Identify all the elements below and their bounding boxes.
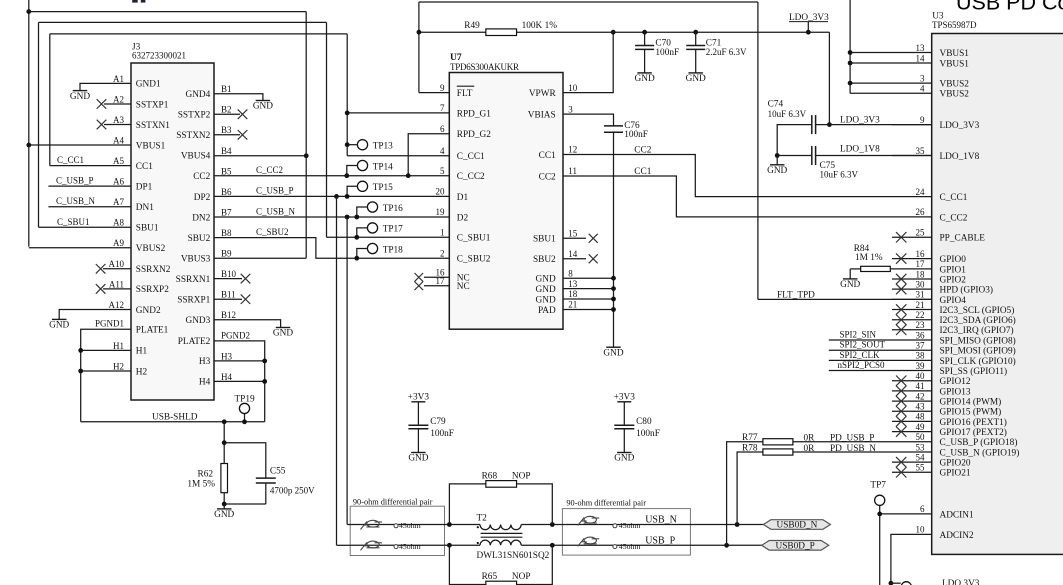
- svg-text:I2C3_SDA (GPIO6): I2C3_SDA (GPIO6): [940, 315, 1016, 326]
- pin 14 SBU2 stub: [563, 258, 586, 260]
- svg-text:A1: A1: [113, 74, 124, 84]
- svg-text:GND: GND: [686, 74, 706, 84]
- wire pin B6 DP2 to U7 D1: [214, 195, 449, 197]
- junction R62 branch: [222, 419, 227, 424]
- svg-text:DP1: DP1: [136, 182, 153, 192]
- svg-text:SSTXN2: SSTXN2: [176, 131, 210, 141]
- pin B10 SSRXN1 stub: [214, 278, 242, 280]
- pin B11 SSRXP1 stub: [214, 298, 242, 300]
- wire net C_USB_N vertical down: [346, 217, 348, 525]
- svg-text:+3V3: +3V3: [614, 392, 636, 402]
- svg-text:6: 6: [440, 124, 445, 134]
- svg-text:11: 11: [568, 166, 577, 176]
- wire VBUS right vertical to B4/B9: [305, 12, 307, 259]
- svg-text:GPIO0: GPIO0: [940, 255, 967, 265]
- svg-text:SPI2_CLK: SPI2_CLK: [840, 350, 881, 360]
- svg-text:nSPI2_PCS0: nSPI2_PCS0: [838, 360, 886, 370]
- svg-text:PP_CABLE: PP_CABLE: [940, 234, 986, 244]
- wire pin A4 VBUS1: [29, 144, 131, 146]
- svg-text:14: 14: [916, 53, 926, 63]
- svg-text:12: 12: [568, 145, 577, 155]
- no-connect X B2: [238, 109, 248, 119]
- no-connect X NC16: [415, 273, 424, 282]
- impedance symbol 45ohm upper left: [361, 520, 421, 530]
- svg-text:45ohm: 45ohm: [619, 542, 641, 551]
- svg-text:NOP: NOP: [512, 471, 531, 481]
- svg-text:15: 15: [568, 229, 578, 239]
- svg-text:3: 3: [920, 73, 925, 83]
- junction C55 top: [222, 440, 227, 445]
- wire LDO_3V3 rail: [419, 31, 830, 33]
- svg-text:GPIO20: GPIO20: [940, 459, 971, 469]
- svg-text:SSRXN2: SSRXN2: [136, 265, 171, 275]
- junction VBUS1 pin13: [848, 50, 853, 55]
- svg-text:+3V3: +3V3: [408, 392, 430, 402]
- svg-text:24: 24: [916, 187, 926, 197]
- svg-text:C_CC2: C_CC2: [940, 213, 968, 223]
- svg-text:SPI_MOSI (GPIO9): SPI_MOSI (GPIO9): [940, 346, 1016, 357]
- ground below U7: [603, 347, 623, 358]
- svg-text:TP17: TP17: [383, 225, 403, 235]
- svg-text:SBU2: SBU2: [188, 234, 211, 244]
- svg-text:C55: C55: [270, 466, 286, 476]
- pin B2 SSTXP2 stub: [214, 113, 240, 115]
- wire lower row T2 to flag: [521, 544, 762, 546]
- wire pin B1 GND4: [214, 94, 263, 101]
- svg-text:T2: T2: [477, 514, 488, 524]
- svg-text:A12: A12: [109, 300, 125, 310]
- ground at A12: [49, 319, 69, 330]
- U7 pin designators and names: [436, 83, 578, 316]
- pin A7 DN1 net stub C_USB_N: [48, 206, 131, 208]
- power flag LDO_3V3: [789, 13, 829, 35]
- svg-text:H1: H1: [136, 347, 148, 357]
- svg-text:C_SBU2: C_SBU2: [256, 227, 289, 237]
- svg-text:GND: GND: [536, 275, 556, 285]
- svg-text:VBUS3: VBUS3: [181, 254, 211, 264]
- wire pin B4 VBUS4: [214, 155, 306, 157]
- ground at A1: [70, 91, 90, 102]
- svg-text:FLT_TPD: FLT_TPD: [777, 290, 815, 300]
- svg-text:SPI_CLK (GPIO10): SPI_CLK (GPIO10): [940, 356, 1016, 367]
- transformer T2 core: [481, 533, 523, 537]
- svg-text:CC2: CC2: [193, 172, 210, 182]
- svg-text:GPIO14 (PWM): GPIO14 (PWM): [940, 397, 1002, 408]
- svg-text:PLATE1: PLATE1: [136, 326, 169, 336]
- svg-text:SSTXP2: SSTXP2: [178, 111, 211, 121]
- svg-text:H2: H2: [136, 367, 148, 377]
- no-connect X B10: [241, 274, 251, 284]
- transformer T2 lower winding: [477, 540, 550, 561]
- wire U3 pin10 ADCIN2: [891, 534, 932, 585]
- wire net CC2 from U7 CC1 to U3 C_CC1: [563, 155, 932, 197]
- svg-text:SPI2_SIN: SPI2_SIN: [840, 330, 877, 340]
- svg-text:41: 41: [916, 381, 925, 391]
- net label USB_N: [645, 515, 677, 526]
- svg-text:SBU1: SBU1: [136, 224, 159, 234]
- svg-text:B11: B11: [221, 290, 236, 300]
- svg-text:TP18: TP18: [383, 245, 403, 255]
- svg-text:C_CC1: C_CC1: [57, 155, 84, 165]
- test point TP7: [870, 481, 886, 585]
- svg-text:39: 39: [916, 361, 926, 371]
- svg-text:H3: H3: [199, 357, 211, 367]
- svg-text:17: 17: [916, 259, 926, 269]
- junction H3: [262, 359, 267, 364]
- svg-text:D1: D1: [457, 193, 469, 203]
- no-connect X SBU2: [589, 254, 598, 263]
- svg-text:8: 8: [568, 268, 573, 278]
- svg-text:4700p 250V: 4700p 250V: [270, 485, 315, 495]
- capacitor C74 10uF 6.3V: [768, 100, 817, 156]
- wire net C_SBU1 wrap (left vertical): [38, 22, 40, 227]
- svg-text:4: 4: [920, 84, 925, 94]
- test point TP16: [354, 202, 403, 220]
- junction RPD_G2 on C_CC2: [406, 173, 411, 178]
- svg-text:I2C3_IRQ (GPIO7): I2C3_IRQ (GPIO7): [940, 325, 1014, 336]
- svg-text:45ohm: 45ohm: [399, 521, 421, 530]
- wire net C_CC1 wrap (right vertical): [346, 34, 348, 156]
- svg-text:SSTXP1: SSTXP1: [136, 100, 169, 110]
- wire net FLT right vertical: [757, 2, 759, 299]
- svg-text:45ohm: 45ohm: [619, 521, 641, 530]
- net label LDO_1V8 at pin35: [840, 144, 880, 154]
- net label C_USB_N at B7: [256, 206, 296, 216]
- svg-text:TP19: TP19: [235, 395, 255, 405]
- svg-text:VBUS1: VBUS1: [136, 141, 166, 151]
- svg-text:GND1: GND1: [136, 80, 161, 90]
- svg-text:GPIO21: GPIO21: [940, 469, 971, 479]
- net label nSPI2_PCS0: [838, 360, 886, 370]
- svg-text:C_SBU2: C_SBU2: [457, 255, 491, 265]
- svg-text:VBUS1: VBUS1: [940, 59, 970, 69]
- test point TP19: [235, 395, 255, 425]
- svg-text:B1: B1: [221, 84, 232, 94]
- wire U7 pin4 C_CC1 segment: [347, 155, 449, 157]
- svg-text:FLT: FLT: [457, 89, 473, 99]
- wire C_USB_P into lower row: [337, 544, 351, 546]
- net label SPI2_SOUT: [840, 340, 886, 350]
- no-connect X A10: [96, 264, 106, 274]
- svg-text:B2: B2: [221, 105, 232, 115]
- IC U3 TPS65987D body: [932, 12, 1063, 555]
- svg-text:C_CC1: C_CC1: [940, 193, 968, 203]
- ground at B1: [253, 101, 273, 112]
- capacitor C76 100nF: [604, 121, 648, 140]
- junction TP7 on ADCIN1: [877, 512, 882, 517]
- junction GND8: [611, 276, 616, 281]
- svg-text:100K 1%: 100K 1%: [522, 21, 558, 31]
- svg-text:A4: A4: [113, 135, 124, 145]
- svg-text:GPIO12: GPIO12: [940, 377, 971, 387]
- svg-text:C80: C80: [636, 417, 652, 427]
- svg-text:PLATE2: PLATE2: [178, 337, 211, 347]
- svg-text:H3: H3: [221, 351, 232, 361]
- wire net C_SBU1 wrap (right vertical): [326, 22, 328, 237]
- svg-text:GND: GND: [635, 74, 655, 84]
- wire pin B8 SBU2 jog down: [214, 238, 449, 259]
- wire pin A8 SBU1 net C_SBU1: [39, 226, 132, 228]
- svg-text:21: 21: [916, 300, 925, 310]
- wire pin A9 VBUS2: [29, 247, 131, 249]
- impedance symbol 45ohm upper right: [578, 516, 641, 530]
- svg-text:GND: GND: [214, 510, 234, 520]
- pin A11 SSRXP2 stub: [103, 288, 131, 290]
- wire LDO_3V3 down to U3: [828, 32, 830, 124]
- wire net CC1 from U7 CC2 to U3 C_CC2: [563, 176, 932, 217]
- wire net FLT vertical: [418, 2, 420, 93]
- svg-text:VBIAS: VBIAS: [528, 111, 556, 121]
- capacitor C55 4700p 250V: [224, 466, 315, 504]
- junction VBUS at A4: [26, 143, 31, 148]
- svg-text:10uF 6.3V: 10uF 6.3V: [820, 170, 859, 180]
- wire C55 top: [224, 443, 266, 478]
- svg-text:25: 25: [916, 228, 926, 238]
- net label C_USB_P at A6: [56, 176, 94, 186]
- svg-text:A2: A2: [113, 94, 124, 104]
- svg-text:R68: R68: [482, 471, 498, 481]
- resistor R77 0R PD_USB_P: [727, 433, 932, 545]
- svg-text:SSRXP2: SSRXP2: [136, 285, 169, 295]
- svg-text:C_USB_P: C_USB_P: [256, 186, 294, 196]
- svg-text:TPD6S300AKUKR: TPD6S300AKUKR: [450, 62, 519, 72]
- junction T2 lower left: [447, 543, 452, 548]
- no-connect X B3: [238, 130, 248, 140]
- svg-text:90-ohm differential pair: 90-ohm differential pair: [353, 497, 433, 506]
- wire U7 pin1 C_SBU1 horizontal: [327, 236, 450, 238]
- svg-text:R65: R65: [482, 572, 498, 582]
- wire VBUS left vertical (A4/A9 to top): [28, 0, 30, 247]
- junction R78 on USB0D_N: [735, 522, 740, 527]
- svg-text:13: 13: [916, 43, 926, 53]
- svg-text:A5: A5: [113, 156, 124, 166]
- transformer T2 DWL31SN601SQ2 upper winding: [477, 514, 522, 530]
- wire U7 pin8 GND: [563, 277, 614, 279]
- svg-text:I2C3_SCL (GPIO5): I2C3_SCL (GPIO5): [940, 305, 1015, 316]
- wire net C_CC1 wrap (left vertical): [49, 34, 51, 166]
- svg-text:VBUS2: VBUS2: [940, 90, 970, 100]
- svg-text:40: 40: [916, 371, 926, 381]
- svg-text:B9: B9: [221, 249, 232, 259]
- ground at R84: [840, 269, 860, 290]
- wire net C_SBU1 wrap (top horizontal): [39, 21, 327, 23]
- svg-text:C79: C79: [430, 417, 446, 427]
- svg-text:B8: B8: [221, 228, 232, 238]
- svg-text:7: 7: [440, 103, 445, 113]
- net label C_SBU2 at B8: [256, 227, 289, 237]
- capacitor C80 100nF with +3V3: [614, 392, 660, 463]
- capacitor C75 10uF 6.3V: [777, 146, 932, 180]
- svg-text:632723300021: 632723300021: [132, 51, 186, 61]
- svg-text:26: 26: [916, 207, 926, 217]
- no-connect X SBU1: [589, 234, 598, 243]
- svg-text:SBU2: SBU2: [533, 255, 556, 265]
- svg-text:R78: R78: [742, 444, 758, 454]
- svg-text:B3: B3: [221, 125, 232, 135]
- svg-text:SPI_MISO (GPIO8): SPI_MISO (GPIO8): [940, 335, 1016, 346]
- svg-text:TP13: TP13: [373, 142, 393, 152]
- svg-text:DP2: DP2: [194, 193, 211, 203]
- svg-text:38: 38: [916, 351, 926, 361]
- pin 16 NC stub: [424, 276, 449, 278]
- wire USB-SHLD: [81, 421, 265, 423]
- svg-text:GPIO13: GPIO13: [940, 387, 971, 397]
- junction RPD_G1: [345, 111, 350, 116]
- svg-text:LDO_1V8: LDO_1V8: [840, 144, 880, 154]
- svg-text:RPD_G2: RPD_G2: [457, 130, 491, 140]
- svg-text:14: 14: [568, 249, 578, 259]
- wire U7 pin7 RPD_G1: [347, 112, 449, 114]
- junction R62 bottom: [222, 502, 227, 507]
- wire pin B12 GND3: [214, 320, 281, 328]
- svg-text:GND: GND: [603, 348, 623, 358]
- svg-text:35: 35: [916, 146, 926, 156]
- pin A6 DP1 net stub C_USB_P: [48, 185, 131, 187]
- junction FLT/R49: [417, 30, 422, 35]
- impedance symbol 45ohm lower left: [361, 541, 421, 551]
- no-connect X A3: [97, 120, 107, 130]
- svg-text:100nF: 100nF: [655, 48, 679, 58]
- svg-text:LDO 3V3: LDO 3V3: [942, 579, 980, 585]
- svg-text:H2: H2: [113, 361, 124, 371]
- svg-text:SPI2_SOUT: SPI2_SOUT: [840, 340, 886, 350]
- svg-text:GPIO1: GPIO1: [940, 265, 967, 275]
- wire pin H3: [214, 360, 265, 362]
- title USB PD Controller (clipped): [956, 0, 1063, 15]
- svg-text:B4: B4: [221, 146, 232, 156]
- clipped blue title fragment top-left: [132, 0, 145, 3]
- U3 pin stubs, numbers, names, no-connect marks: [829, 43, 1020, 541]
- pin 17 NC stub: [424, 285, 449, 287]
- ground at B12: [273, 328, 293, 339]
- svg-text:VBUS1: VBUS1: [940, 49, 970, 59]
- net label USB-SHLD: [152, 412, 198, 422]
- svg-text:H4: H4: [199, 378, 211, 388]
- svg-text:USB-SHLD: USB-SHLD: [152, 412, 198, 422]
- wire U3 pin3 VBUS2: [850, 82, 932, 84]
- test point TP14: [344, 160, 393, 178]
- svg-text:USB0D_N: USB0D_N: [776, 521, 817, 531]
- junction C_USB_P drop on D1: [334, 194, 339, 199]
- svg-text:D2: D2: [457, 213, 469, 223]
- svg-text:PAD: PAD: [538, 306, 556, 316]
- wire U7 pin6 RPD_G2 to C_CC2: [408, 134, 449, 176]
- pin B3 SSTXN2 stub: [214, 134, 240, 136]
- ground below R62: [214, 504, 234, 520]
- svg-text:45ohm: 45ohm: [399, 542, 421, 551]
- svg-text:SSRXP1: SSRXP1: [177, 296, 210, 306]
- svg-text:B5: B5: [221, 166, 232, 176]
- svg-text:GPIO4: GPIO4: [940, 296, 967, 306]
- svg-text:1: 1: [440, 228, 445, 238]
- svg-text:C_USB_P: C_USB_P: [56, 176, 94, 186]
- svg-text:GND: GND: [767, 166, 787, 176]
- svg-text:CC2: CC2: [539, 172, 556, 182]
- svg-text:C_USB_N: C_USB_N: [56, 196, 96, 206]
- wire net FLT top horizontal: [419, 1, 758, 3]
- wire pin B7 DN2 to U7 D2: [214, 216, 449, 218]
- svg-text:100nF: 100nF: [430, 429, 454, 439]
- svg-text:LDO_1V8: LDO_1V8: [940, 152, 980, 162]
- wire pin B9 VBUS3: [214, 257, 306, 259]
- svg-text:PD_USB_N: PD_USB_N: [830, 444, 876, 454]
- svg-text:23: 23: [916, 320, 926, 330]
- test point TP13: [345, 140, 393, 152]
- svg-text:22: 22: [916, 310, 925, 320]
- svg-text:GND: GND: [273, 329, 293, 339]
- junction C74/C75 gnd: [775, 153, 780, 158]
- svg-text:USB0D_P: USB0D_P: [776, 542, 815, 552]
- resistor R65 NOP (clipped): [449, 545, 552, 585]
- wire U3 pin6 ADCIN1: [880, 513, 932, 515]
- junction VBUS at B4: [304, 153, 309, 158]
- svg-text:0R: 0R: [804, 433, 816, 443]
- net label SPI2_CLK: [840, 350, 881, 360]
- svg-text:4: 4: [440, 146, 445, 156]
- svg-text:TP16: TP16: [383, 204, 403, 214]
- svg-text:90-ohm differential pair: 90-ohm differential pair: [566, 499, 646, 508]
- svg-text:2: 2: [440, 248, 445, 258]
- IC U7 TPD6S300AKUKR body: [449, 53, 563, 329]
- svg-text:C_USB_N (GPIO19): C_USB_N (GPIO19): [940, 447, 1020, 458]
- capacitor C71 2.2uF 6.3V: [686, 30, 747, 84]
- svg-text:100nF: 100nF: [624, 130, 648, 140]
- junction PAD: [611, 307, 616, 312]
- svg-text:C_USB_P (GPIO18): C_USB_P (GPIO18): [940, 437, 1018, 448]
- wire pin H1: [81, 349, 131, 351]
- no-connect X NC17: [415, 282, 424, 291]
- svg-text:HPD (GPIO3): HPD (GPIO3): [940, 285, 993, 296]
- right 90-ohm differential pair box: [562, 499, 690, 555]
- svg-text:VBUS4: VBUS4: [181, 152, 211, 162]
- junction LDO_3V3 at C74: [827, 122, 832, 127]
- svg-text:GND2: GND2: [136, 306, 161, 316]
- wire U7 pin10 VPWR: [563, 32, 613, 92]
- svg-text:16: 16: [916, 249, 926, 259]
- svg-text:5: 5: [440, 166, 445, 176]
- svg-text:GND: GND: [253, 102, 273, 112]
- svg-text:6: 6: [920, 504, 925, 514]
- svg-text:A9: A9: [113, 238, 124, 248]
- svg-text:GND: GND: [70, 92, 90, 102]
- junction C_USB_N drop on D2: [345, 215, 350, 220]
- svg-text:18: 18: [568, 289, 578, 299]
- pin A10 SSRXN2 stub: [103, 268, 131, 270]
- svg-text:SPI_SS (GPIO11): SPI_SS (GPIO11): [940, 366, 1008, 377]
- svg-text:USB PD Con: USB PD Con: [956, 0, 1063, 15]
- svg-text:TP14: TP14: [373, 162, 393, 172]
- svg-text:GND: GND: [408, 454, 428, 464]
- svg-text:GND: GND: [840, 280, 860, 290]
- svg-text:PGND2: PGND2: [221, 330, 250, 340]
- wire VBUS top horizontal: [29, 11, 306, 13]
- wire pin A12 GND2: [59, 309, 131, 319]
- wire U3 pin13 VBUS1: [850, 52, 932, 54]
- svg-text:36: 36: [916, 330, 926, 340]
- svg-text:GPIO15 (PWM): GPIO15 (PWM): [940, 407, 1002, 418]
- resistor R78 0R PD_USB_N: [737, 444, 932, 525]
- svg-text:A11: A11: [109, 279, 124, 289]
- svg-text:C_USB_N: C_USB_N: [256, 206, 296, 216]
- svg-text:20: 20: [436, 187, 446, 197]
- svg-text:DN1: DN1: [136, 203, 154, 213]
- svg-text:A8: A8: [113, 218, 124, 228]
- wire net C_CC1 wrap (top horizontal): [50, 33, 347, 35]
- junction R77 on USB0D_P: [724, 543, 729, 548]
- svg-text:10: 10: [568, 83, 578, 93]
- svg-text:GND4: GND4: [186, 90, 211, 100]
- wire U7 pin21 PAD: [563, 309, 614, 311]
